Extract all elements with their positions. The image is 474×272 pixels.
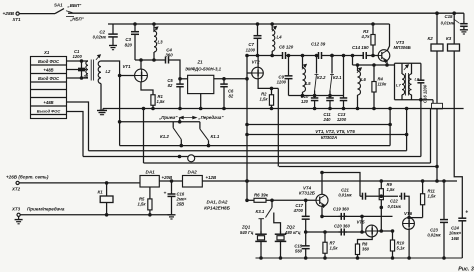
- wire VT3 collector: [387, 24, 389, 51]
- svg-text:L2: L2: [106, 69, 112, 74]
- capacitor C24: [449, 210, 468, 258]
- svg-text:С15: С15: [444, 14, 453, 19]
- ground C15: [460, 30, 468, 34]
- resistor R7: [323, 231, 338, 260]
- wire collector route: [321, 171, 360, 196]
- regulator DA1: [140, 170, 159, 187]
- node C3: [134, 23, 137, 26]
- bus2: [89, 107, 408, 151]
- wire X1 row2 tap: [67, 69, 87, 71]
- svg-text:DA1: DA1: [146, 170, 156, 175]
- wire X1 row3: [67, 77, 89, 79]
- contact K3.1: [256, 200, 281, 233]
- ground bus: [99, 109, 464, 115]
- svg-text:+26В (борт. сеть): +26В (борт. сеть): [6, 173, 49, 179]
- svg-text:КП302А: КП302А: [321, 135, 337, 140]
- svg-text:С12 39: С12 39: [311, 42, 326, 47]
- capacitor C3: [125, 24, 139, 60]
- wire C14 to VT3: [369, 55, 378, 57]
- resistor R1: [151, 92, 165, 109]
- inductor L6: [356, 65, 366, 110]
- relay K2: [428, 13, 444, 51]
- contact K2.2: [315, 54, 327, 95]
- bus4: [142, 107, 430, 163]
- svg-text:МП306Б: МП306Б: [394, 45, 411, 50]
- svg-text:L3: L3: [158, 40, 164, 45]
- wire Z1 out: [214, 78, 249, 81]
- svg-text:82: 82: [229, 94, 234, 99]
- label DA group: [204, 199, 230, 210]
- wire VT1 gate: [118, 74, 134, 77]
- contact K2.1: [330, 54, 342, 95]
- wire C22 line: [380, 195, 398, 198]
- second rail: [108, 23, 390, 25]
- node VT1 drain: [140, 59, 143, 62]
- capacitor C15: [441, 13, 468, 30]
- label priem: [158, 115, 224, 120]
- svg-text:R6 39к: R6 39к: [254, 192, 269, 197]
- svg-text:Рис. 3: Рис. 3: [458, 266, 474, 272]
- svg-text:360: 360: [165, 53, 173, 58]
- svg-text:82: 82: [168, 83, 173, 88]
- tank bottom wire: [289, 94, 344, 97]
- wire VT1 source: [141, 82, 153, 92]
- svg-text:0,01мк: 0,01мк: [441, 21, 455, 26]
- wire K2 down: [436, 51, 439, 182]
- wire VT6 top node: [408, 216, 423, 219]
- svg-text:16В: 16В: [451, 236, 459, 241]
- terminal XT3: [11, 207, 65, 217]
- node R1 gnd: [152, 107, 155, 110]
- harness line B: [246, 133, 407, 136]
- wire fb upper: [321, 215, 393, 218]
- capacitor C12: [311, 42, 326, 59]
- capacitor C6: [220, 79, 234, 110]
- ground XT3: [15, 216, 23, 223]
- connector X1: [31, 50, 67, 119]
- ground L2: [97, 84, 105, 115]
- svg-text:VT6: VT6: [404, 211, 413, 216]
- node K3 feed: [453, 12, 456, 15]
- node C17 C18: [304, 222, 307, 243]
- wire +26V: [19, 182, 140, 185]
- svg-text:VT1: VT1: [123, 64, 132, 69]
- relay K3: [446, 13, 460, 51]
- capacitor C2: [93, 24, 118, 40]
- svg-text:+12В: +12В: [206, 175, 217, 180]
- wire VT3 emitter: [386, 61, 389, 67]
- capacitor C10: [301, 94, 319, 110]
- transistor VT1: [123, 64, 148, 82]
- ground C2: [109, 40, 117, 50]
- wire DA1 out: [159, 175, 182, 182]
- node L4 top: [271, 23, 274, 26]
- wire tank out down: [420, 100, 422, 157]
- svg-text:КР142ЕН8Б: КР142ЕН8Б: [204, 205, 230, 210]
- svg-text:1,5к: 1,5к: [428, 194, 437, 199]
- svg-text:VT2: VT2: [252, 60, 261, 65]
- resistor R9: [379, 181, 395, 209]
- wire W1 drain node: [135, 59, 162, 61]
- capacitor C17: [293, 200, 310, 222]
- wire W2 supply: [246, 54, 280, 57]
- svg-text:С16 1200: С16 1200: [423, 84, 428, 103]
- ground bottom mid: [168, 215, 176, 219]
- wire VT2 drain: [257, 56, 259, 68]
- wire XT1 to SA1: [19, 13, 55, 15]
- svg-text:1,5к: 1,5к: [157, 99, 166, 104]
- svg-text:0,02мк: 0,02мк: [427, 233, 441, 238]
- capacitor C23: [427, 181, 448, 259]
- svg-text:L5: L5: [306, 81, 312, 86]
- node L3 bottom: [153, 59, 156, 62]
- svg-text:360: 360: [362, 247, 370, 252]
- svg-text:К1: К1: [98, 189, 104, 194]
- capacitor C7: [246, 23, 262, 56]
- label VT group: [315, 129, 355, 140]
- quartz ZQ2: [275, 225, 301, 260]
- filter Z1 label: [185, 60, 222, 72]
- capacitor C11: [323, 96, 334, 123]
- capacitor C19: [333, 207, 350, 220]
- capacitor C8: [279, 44, 294, 59]
- wire C4 to Z1: [172, 60, 180, 79]
- svg-text:Прием/передача: Прием/передача: [27, 207, 65, 212]
- wire fb corner: [361, 216, 363, 232]
- wire VT5 drain: [377, 230, 392, 233]
- wire tank top: [353, 64, 395, 67]
- svg-text:480 кГц: 480 кГц: [284, 230, 301, 235]
- inductor L4: [272, 24, 282, 56]
- capacitor C22: [388, 193, 410, 218]
- switch SA1: [54, 2, 85, 21]
- transformer L1: [84, 61, 89, 79]
- transformer L7: [396, 63, 405, 99]
- svg-text:ХТ2: ХТ2: [11, 187, 21, 192]
- resistor R11: [421, 181, 437, 218]
- svg-text:КТ312Б: КТ312Б: [299, 191, 315, 196]
- svg-text:С20 360: С20 360: [334, 224, 351, 229]
- long vertical feed: [246, 56, 249, 201]
- resistor R6: [250, 192, 270, 202]
- terminal XT2: [6, 173, 49, 191]
- terminal XT1 +28V: [3, 11, 22, 22]
- harness line A: [246, 123, 390, 126]
- wire W2 mid: [288, 55, 317, 57]
- capacitor C16 el: [164, 181, 188, 215]
- svg-text:„Передача": „Передача": [197, 115, 224, 120]
- capacitor C4: [162, 48, 173, 64]
- svg-text:SA1: SA1: [54, 2, 63, 7]
- resistor R2: [260, 88, 274, 109]
- transformer core: [91, 60, 93, 81]
- tuning arrow L8: [404, 65, 408, 70]
- svg-text:+: +: [164, 192, 167, 197]
- svg-text:ЭМФДО-500Н-3,1: ЭМФДО-500Н-3,1: [185, 66, 222, 71]
- capacitor C14: [352, 45, 369, 59]
- bus3 left: [83, 155, 188, 158]
- svg-text:К2.1: К2.1: [333, 75, 342, 80]
- svg-text:С8 120: С8 120: [279, 44, 294, 49]
- long vertical R2 node: [277, 88, 279, 166]
- caption: [458, 266, 474, 272]
- svg-text:1,5к: 1,5к: [260, 97, 269, 102]
- svg-text:5,1к: 5,1к: [397, 246, 406, 251]
- inductor L3: [153, 24, 163, 60]
- capacitor C13: [337, 56, 347, 123]
- svg-text:С14 150: С14 150: [352, 45, 369, 50]
- svg-text:К3: К3: [446, 36, 452, 41]
- bottom bus: [256, 257, 463, 259]
- svg-text:540 Гц: 540 Гц: [240, 230, 254, 235]
- lamp symbol: [188, 155, 195, 162]
- svg-text:К2: К2: [428, 36, 434, 41]
- wire VT6 source: [408, 229, 411, 259]
- resistor R4: [372, 65, 387, 110]
- svg-text:1200: 1200: [277, 80, 287, 85]
- wire XT3 line: [20, 214, 171, 217]
- svg-text:L6: L6: [361, 77, 367, 82]
- wire tank left: [352, 56, 354, 66]
- svg-text:ХТ1: ХТ1: [12, 17, 22, 22]
- svg-text:1200: 1200: [246, 47, 256, 52]
- wire base line: [246, 199, 250, 202]
- svg-text:Вход ФОС: Вход ФОС: [38, 76, 60, 81]
- svg-text:240: 240: [323, 117, 332, 122]
- svg-text:120: 120: [301, 99, 309, 104]
- svg-text:0,01мк: 0,01мк: [388, 204, 402, 209]
- svg-text:„Прием": „Прием": [158, 115, 178, 120]
- resistor R5: [138, 187, 153, 215]
- svg-text:110к: 110к: [378, 82, 388, 87]
- wire fb lower: [306, 231, 366, 234]
- transistor VT4: [299, 185, 328, 207]
- svg-text:1,5к: 1,5к: [138, 202, 147, 207]
- svg-text:0,02мк: 0,02мк: [93, 34, 107, 39]
- svg-text:4,7к: 4,7к: [361, 34, 371, 39]
- svg-text:+48В: +48В: [43, 100, 53, 105]
- wire VT4 collector: [321, 173, 323, 195]
- capacitor C9: [277, 54, 293, 95]
- inductor L5: [301, 54, 311, 95]
- transistor VT2: [252, 60, 264, 79]
- capacitor C20: [334, 224, 351, 236]
- resistor R8: [355, 241, 369, 260]
- transistor VT3: [378, 40, 411, 62]
- wire VT4 emitter: [321, 206, 323, 216]
- regulator DA2: [183, 170, 203, 187]
- svg-text:4700: 4700: [293, 208, 304, 213]
- svg-text:+20В: +20В: [162, 175, 173, 180]
- resistor R3: [361, 23, 376, 57]
- capacitor C18: [294, 243, 309, 259]
- rail +12V: [202, 175, 457, 182]
- svg-text:25В: 25В: [176, 201, 185, 206]
- wire L2 top: [101, 61, 120, 146]
- bus5: [279, 166, 437, 168]
- wire VT2 source: [258, 79, 278, 90]
- wire X1 row1: [67, 60, 89, 62]
- svg-text:„НБП": „НБП": [69, 17, 85, 22]
- svg-text:1,5к: 1,5к: [330, 246, 339, 251]
- wire tank to box: [432, 100, 434, 104]
- svg-text:„ВБП": „ВБП": [67, 3, 83, 8]
- wire VT2 gate: [247, 72, 252, 74]
- top rail +28V: [68, 12, 464, 14]
- svg-text:Вход ФОС: Вход ФОС: [38, 59, 60, 64]
- wire R6 to VT4: [270, 199, 316, 202]
- wire K3 down: [454, 51, 462, 215]
- svg-text:820: 820: [125, 42, 133, 47]
- transformer frame: [395, 63, 434, 99]
- svg-text:L4: L4: [277, 35, 283, 40]
- contact K1.1: [200, 122, 220, 146]
- wire W2 right: [324, 54, 361, 57]
- svg-text:DA1, DA2: DA1, DA2: [207, 199, 228, 204]
- svg-text:К1.1: К1.1: [211, 134, 220, 139]
- capacitor C21: [338, 187, 381, 199]
- svg-text:К1.2: К1.2: [160, 134, 169, 139]
- wire X1 out row6: [67, 112, 84, 157]
- svg-text:+48В: +48В: [43, 67, 53, 72]
- quartz ZQ1: [240, 225, 267, 260]
- bus3 right: [194, 156, 421, 158]
- svg-text:Z1: Z1: [196, 60, 203, 65]
- svg-text:К2.2: К2.2: [317, 75, 326, 80]
- svg-text:560: 560: [295, 249, 303, 254]
- wire X1 +48V row5: [67, 102, 89, 151]
- svg-text:Выход ФОС: Выход ФОС: [37, 108, 61, 113]
- svg-text:С19 360: С19 360: [333, 207, 350, 212]
- wire Z1 in: [179, 78, 188, 81]
- svg-text:L7: L7: [396, 83, 401, 88]
- transistor VT5: [357, 219, 378, 237]
- node K2 feed: [436, 12, 439, 15]
- transformer core 2: [406, 73, 409, 96]
- wire VT1 drain: [140, 60, 142, 69]
- svg-text:1,5к: 1,5к: [387, 187, 396, 192]
- svg-text:+: +: [465, 210, 468, 216]
- svg-text:VT1, VT2, VT5, VT6: VT1, VT2, VT5, VT6: [315, 129, 355, 134]
- svg-text:К3.1: К3.1: [256, 209, 265, 214]
- svg-text:1200: 1200: [337, 117, 347, 122]
- transistor VT6: [403, 211, 415, 229]
- contact K1.2: [160, 122, 181, 146]
- relay K1: [98, 183, 114, 215]
- capacitor C5: [167, 78, 183, 110]
- svg-text:DA2: DA2: [188, 170, 198, 175]
- node L3 top: [153, 23, 156, 26]
- wire R9 down: [380, 207, 382, 231]
- wire VT5 source: [358, 237, 373, 241]
- bus1: [120, 107, 392, 147]
- transformer L2: [98, 61, 111, 84]
- capacitor C16 tank: [417, 63, 427, 103]
- svg-text:С3: С3: [125, 37, 131, 42]
- svg-text:1200: 1200: [73, 54, 83, 59]
- wire priem line: [118, 118, 200, 124]
- svg-text:0,01мк: 0,01мк: [338, 193, 352, 198]
- transformer L8: [409, 63, 420, 99]
- junction box marker: [432, 103, 443, 109]
- wire Z1 gnd pin: [199, 94, 202, 110]
- capacitor C1: [73, 49, 86, 79]
- svg-text:L1: L1: [84, 74, 89, 79]
- filter Z1: [188, 75, 214, 93]
- resistor R10: [390, 230, 405, 260]
- svg-text:Х1: Х1: [43, 50, 50, 55]
- tuning arrow L1L2: [96, 55, 100, 60]
- svg-text:ХТ3: ХТ3: [11, 207, 21, 212]
- svg-text:VT5: VT5: [357, 219, 366, 224]
